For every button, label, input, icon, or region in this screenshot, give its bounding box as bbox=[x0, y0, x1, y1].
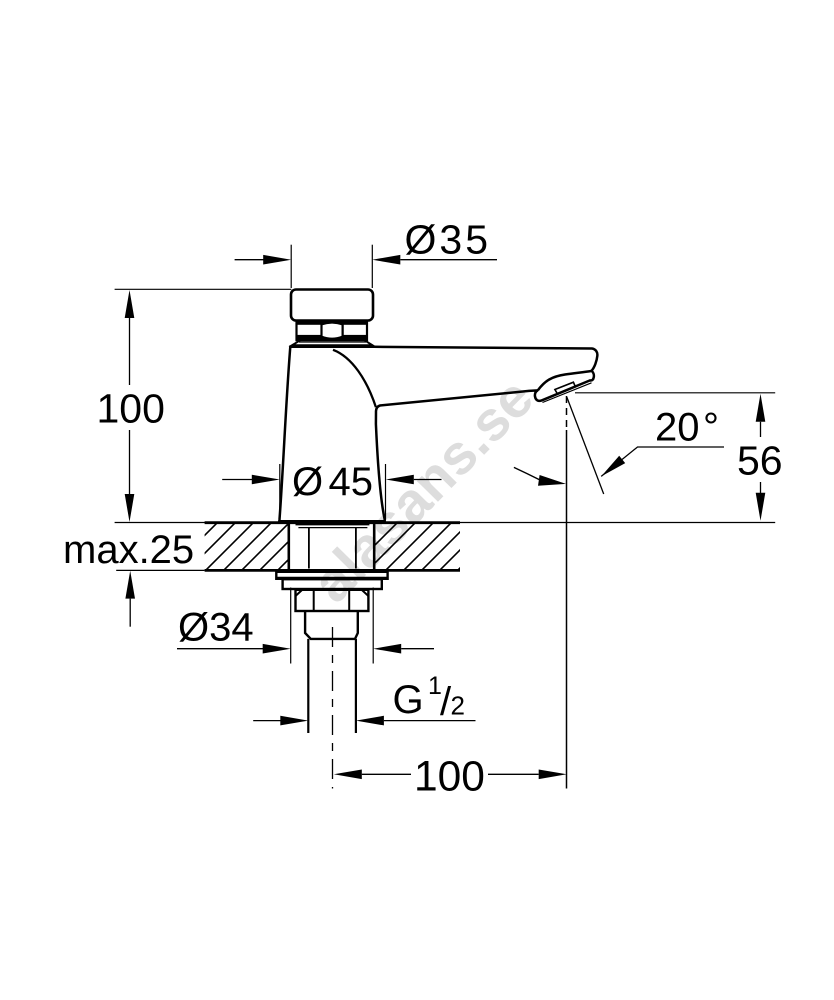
dim G12 right arrowhead bbox=[356, 716, 384, 726]
supply pipe right edge bbox=[355, 639, 357, 733]
hex collar left facet line bbox=[321, 321, 323, 340]
dim G12 left arrowhead bbox=[280, 716, 308, 726]
dim Ø34 left extension line bbox=[290, 588, 292, 664]
flange inner line bbox=[299, 341, 366, 343]
aerator housing bottom thin edge bbox=[543, 383, 592, 403]
svg-text:45: 45 bbox=[329, 460, 374, 504]
dim Ø34 left tail bbox=[177, 648, 264, 650]
dim 100 bottom right shaft bbox=[488, 773, 539, 775]
angle arc bbox=[514, 467, 540, 479]
dim Ø35 right extension line bbox=[371, 245, 373, 288]
washer wide bold bottom edge bbox=[277, 577, 387, 580]
dim Ø45 left arrowhead bbox=[252, 475, 280, 485]
flange under collar bbox=[292, 340, 373, 345]
dim 56 lower shaft bbox=[760, 482, 762, 493]
mounting plate bottom line thin left bbox=[116, 569, 204, 571]
dim Ø35 right tail bbox=[400, 259, 497, 261]
stream angled line 20 deg bbox=[567, 397, 604, 494]
hex collar centre facet blob bbox=[322, 323, 343, 339]
dim Ø34 right arrowhead bbox=[373, 644, 401, 654]
stream vertical solid bbox=[566, 430, 568, 789]
hex collar top band bbox=[297, 321, 368, 325]
svg-text:100: 100 bbox=[414, 754, 485, 801]
mounting plate hatch right bbox=[340, 510, 536, 580]
mounting plate hatch left bbox=[160, 510, 356, 580]
dim 100 bottom arrowhead bbox=[125, 494, 135, 522]
locknut top-left chamfer bbox=[296, 590, 303, 596]
dim Ø35 left arrowhead bbox=[263, 255, 291, 265]
svg-text:Ø: Ø bbox=[292, 460, 323, 504]
dim Ø45 right arrowhead bbox=[386, 475, 414, 485]
washer wide bbox=[276, 572, 387, 579]
svg-text:G: G bbox=[393, 678, 424, 722]
svg-text:°: ° bbox=[703, 406, 719, 450]
dim 100 top arrowhead bbox=[125, 290, 135, 318]
shank top line thick bbox=[296, 523, 370, 525]
faucet push-button cap bbox=[291, 290, 373, 321]
leader 20deg arrowhead bbox=[601, 456, 625, 477]
dim Ø35 right arrowhead bbox=[372, 255, 400, 265]
angle arc arrowhead bbox=[538, 475, 566, 486]
faucet body outline bbox=[279, 347, 597, 522]
dim 56 top arrowhead bbox=[756, 394, 766, 422]
dim Ø35 left tail bbox=[235, 259, 264, 261]
svg-text:max.25: max.25 bbox=[63, 528, 194, 572]
dim 100 bottom left shaft bbox=[362, 773, 411, 775]
shank hole right edge bbox=[373, 522, 376, 570]
locknut right facet bbox=[348, 590, 350, 611]
dim Ø45 left tick bbox=[279, 464, 281, 520]
washer small bbox=[283, 579, 382, 589]
dim G12 right tail bbox=[384, 720, 476, 722]
locknut top-right chamfer bbox=[362, 590, 369, 596]
dim Ø45 right tail bbox=[414, 479, 442, 481]
svg-text:Ø35: Ø35 bbox=[405, 217, 492, 263]
shank pipe left edge in plate bbox=[308, 528, 310, 569]
mounting plate top surface line (thick cut portion) bbox=[205, 521, 460, 524]
dim max25 lower shaft bbox=[129, 599, 131, 627]
dim Ø45 right tick bbox=[385, 464, 387, 520]
locknut bbox=[296, 590, 369, 611]
locknut left facet bbox=[313, 590, 315, 611]
thread block bbox=[305, 611, 358, 639]
dim 56 top extension line bbox=[575, 392, 775, 394]
aerator housing upper edge bbox=[538, 371, 592, 390]
shank second line thin bbox=[298, 527, 367, 529]
dim G12 left tail bbox=[253, 720, 281, 722]
shank hole left edge bbox=[287, 522, 290, 570]
aerator face bbox=[555, 382, 576, 394]
svg-text:20: 20 bbox=[655, 406, 700, 450]
shank pipe right edge in plate bbox=[355, 528, 357, 569]
hex collar bottom band bbox=[297, 335, 368, 340]
svg-text:Ø34: Ø34 bbox=[178, 606, 254, 650]
svg-text:56: 56 bbox=[737, 438, 783, 484]
supply pipe left edge bbox=[307, 639, 309, 733]
dim 100 bottom left arrowhead bbox=[334, 770, 362, 780]
dim Ø35 left extension line bbox=[290, 245, 292, 288]
mounting plate bottom line thick bbox=[205, 569, 460, 572]
dim 100 bottom right arrowhead bbox=[539, 770, 567, 780]
dim 56 upper shaft bbox=[760, 422, 762, 437]
dim 100 lower shaft bbox=[129, 430, 131, 494]
dim Ø34 left arrowhead bbox=[263, 644, 291, 654]
leader 20deg line bbox=[601, 447, 724, 476]
centre line of faucet bbox=[332, 627, 334, 789]
dim max25 lower arrowhead bbox=[125, 571, 135, 599]
dim Ø34 right extension line bbox=[372, 588, 374, 664]
dim 100 upper shaft bbox=[129, 318, 131, 385]
dim Ø45 left tail bbox=[222, 479, 252, 481]
shoulder curve neck to spout bbox=[333, 350, 376, 407]
hex collar outline bbox=[297, 321, 368, 340]
dim 56 bottom arrowhead bbox=[756, 493, 766, 521]
dim Ø34 right tail bbox=[401, 648, 434, 650]
stream vertical dashed part bbox=[566, 396, 568, 430]
svg-text:2: 2 bbox=[451, 691, 465, 721]
svg-text:100: 100 bbox=[97, 386, 165, 432]
hex collar right facet line bbox=[342, 321, 344, 340]
dim 100 top extension line bbox=[115, 288, 292, 290]
mounting plate top surface line (thin full width) bbox=[115, 522, 776, 524]
